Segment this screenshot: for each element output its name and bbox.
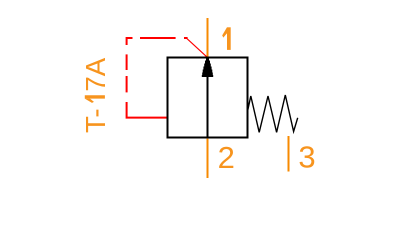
svg-text:2: 2 — [218, 140, 235, 175]
svg-text:3: 3 — [298, 140, 315, 175]
svg-text:7A: 7A — [80, 57, 111, 91]
svg-text:T-: T- — [80, 108, 111, 133]
